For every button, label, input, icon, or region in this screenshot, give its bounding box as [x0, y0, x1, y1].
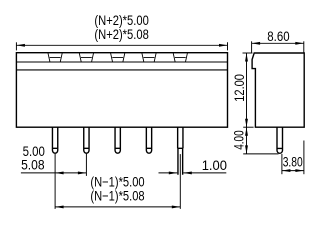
svg-text:5.08: 5.08: [21, 158, 44, 173]
svg-text:4.00: 4.00: [232, 130, 247, 150]
svg-text:(N+2)*5.08: (N+2)*5.08: [94, 27, 148, 42]
svg-text:1.00: 1.00: [202, 158, 228, 173]
svg-text:(N+2)*5.00: (N+2)*5.00: [94, 13, 149, 28]
svg-text:12.00: 12.00: [232, 74, 247, 102]
svg-text:8.60: 8.60: [267, 29, 290, 44]
svg-text:3.80: 3.80: [283, 155, 303, 170]
svg-text:(N−1)*5.08: (N−1)*5.08: [90, 188, 144, 203]
